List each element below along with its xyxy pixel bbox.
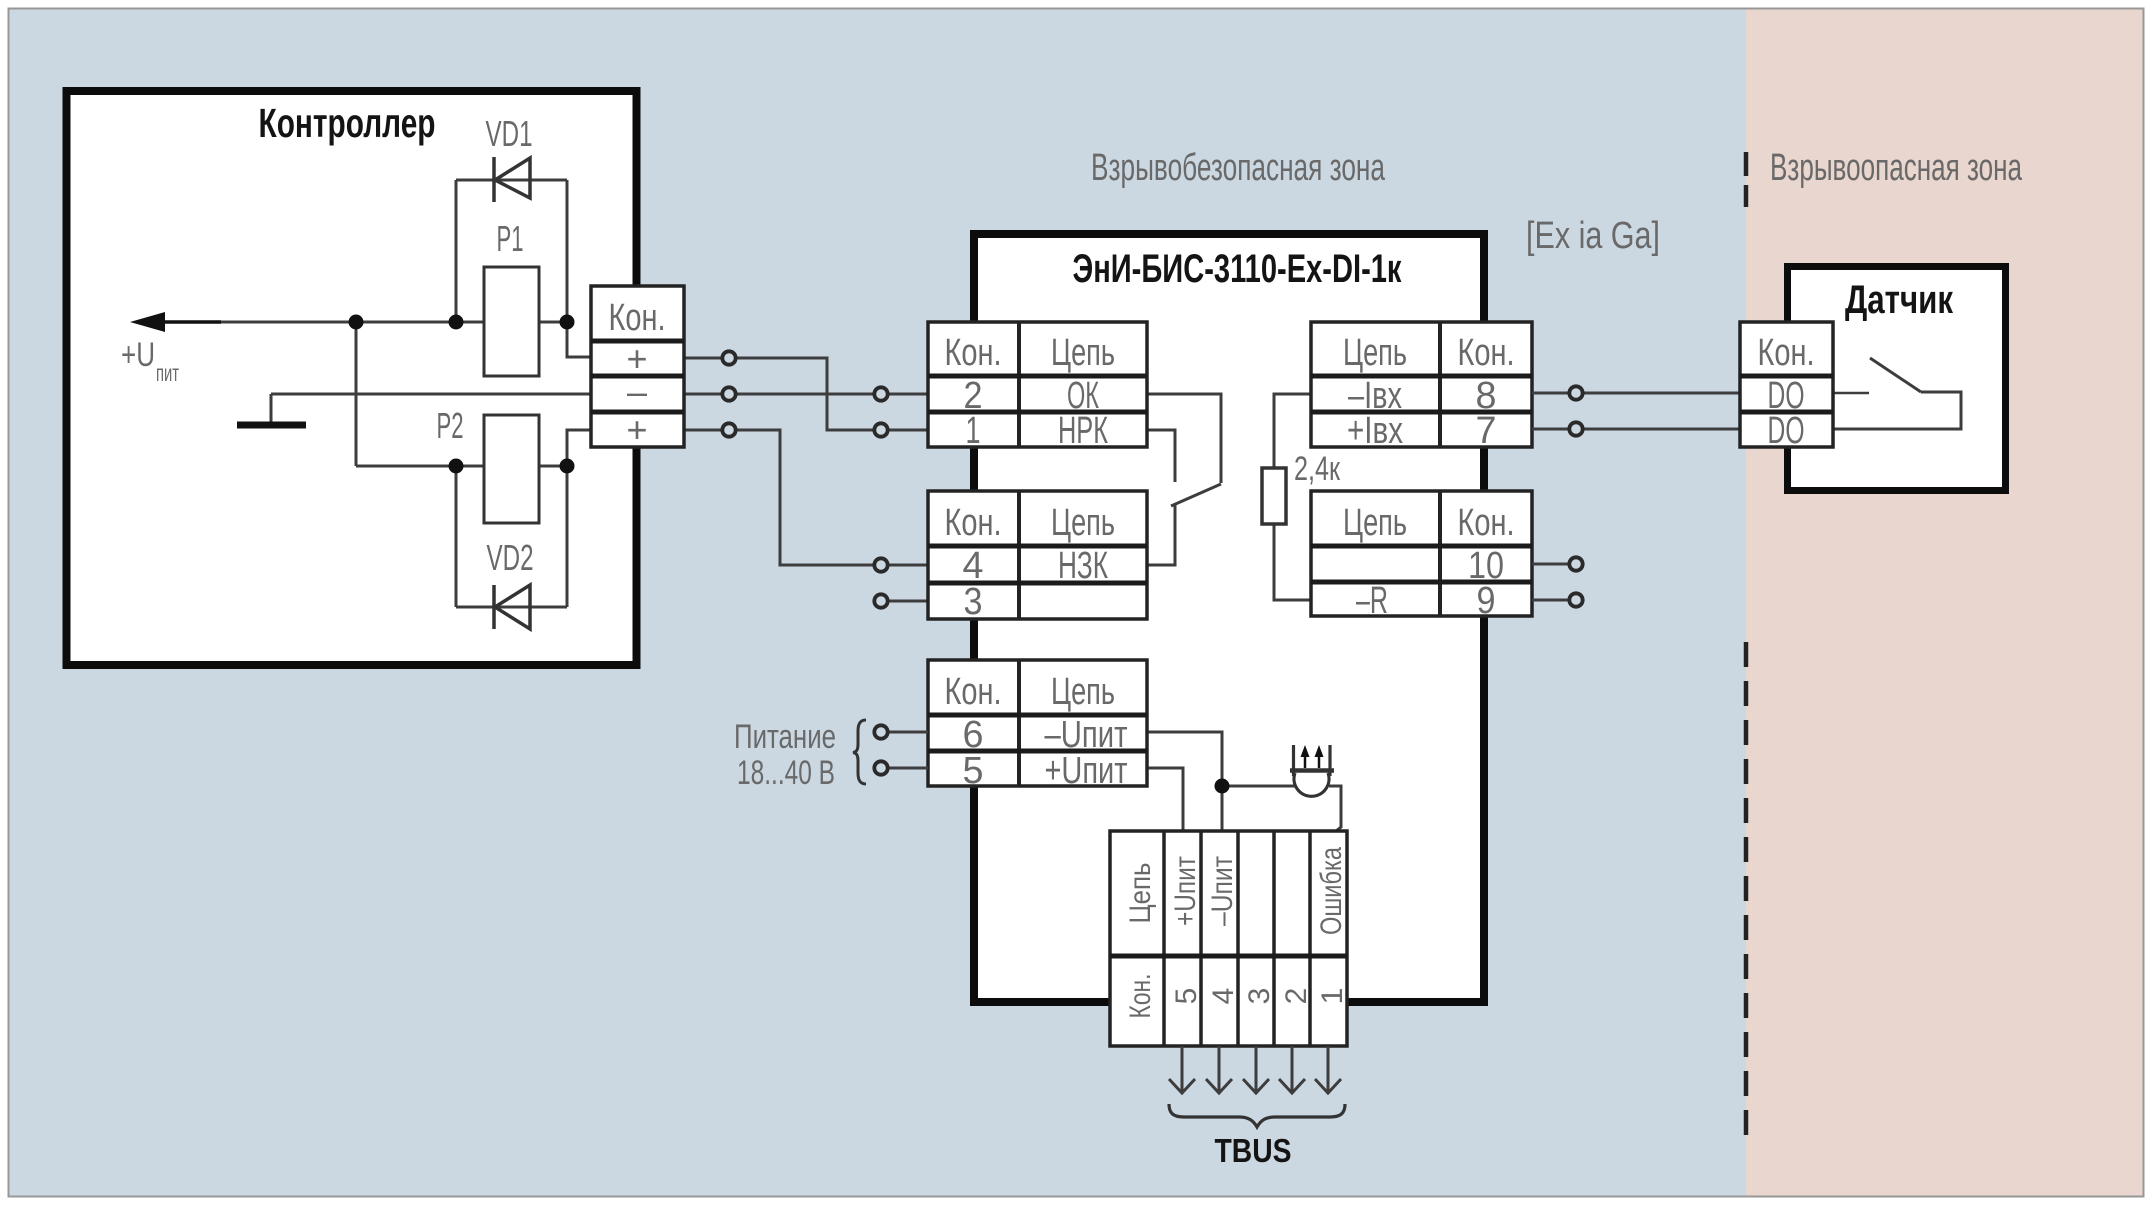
svg-text:1: 1 bbox=[1316, 988, 1349, 1005]
svg-text:–: – bbox=[627, 371, 647, 412]
svg-text:Кон.: Кон. bbox=[1458, 332, 1515, 374]
svg-text:5: 5 bbox=[1170, 988, 1203, 1005]
svg-text:+Iвх: +Iвх bbox=[1347, 410, 1403, 452]
svg-text:[Ex ia Ga]: [Ex ia Ga] bbox=[1526, 215, 1660, 257]
svg-text:7: 7 bbox=[1476, 410, 1497, 452]
svg-text:Цепь: Цепь bbox=[1051, 502, 1115, 544]
svg-text:+Uпит: +Uпит bbox=[1169, 856, 1202, 926]
svg-text:4: 4 bbox=[1207, 988, 1240, 1005]
svg-text:5: 5 bbox=[963, 750, 984, 792]
svg-text:пит: пит bbox=[156, 360, 179, 386]
svg-text:VD2: VD2 bbox=[487, 537, 534, 578]
svg-text:9: 9 bbox=[1477, 580, 1496, 622]
svg-text:Контроллер: Контроллер bbox=[259, 100, 436, 146]
svg-text:–R: –R bbox=[1356, 580, 1388, 622]
svg-text:3: 3 bbox=[964, 581, 983, 623]
svg-text:2,4к: 2,4к bbox=[1294, 450, 1341, 488]
svg-text:–Uпит: –Uпит bbox=[1206, 856, 1239, 926]
svg-text:DO: DO bbox=[1768, 410, 1805, 452]
svg-text:P2: P2 bbox=[437, 405, 464, 446]
svg-text:Цепь: Цепь bbox=[1343, 502, 1407, 544]
svg-text:Кон.: Кон. bbox=[945, 502, 1002, 544]
svg-text:Датчик: Датчик bbox=[1845, 278, 1954, 322]
svg-text:Цепь: Цепь bbox=[1343, 332, 1407, 374]
svg-text:Питание: Питание bbox=[734, 718, 836, 756]
svg-text:2: 2 bbox=[1280, 988, 1313, 1005]
svg-text:Кон.: Кон. bbox=[1758, 332, 1815, 374]
svg-text:+U: +U bbox=[121, 336, 155, 374]
svg-text:Кон.: Кон. bbox=[1124, 974, 1157, 1019]
svg-text:3: 3 bbox=[1243, 988, 1276, 1005]
svg-text:Кон.: Кон. bbox=[945, 332, 1002, 374]
svg-text:TBUS: TBUS bbox=[1215, 1132, 1292, 1169]
svg-text:+Uпит: +Uпит bbox=[1045, 750, 1128, 792]
svg-text:НРК: НРК bbox=[1058, 410, 1108, 452]
svg-text:Цепь: Цепь bbox=[1051, 332, 1115, 374]
svg-text:P1: P1 bbox=[497, 218, 524, 259]
svg-text:НЗК: НЗК bbox=[1058, 545, 1108, 587]
svg-text:Кон.: Кон. bbox=[609, 297, 666, 339]
svg-text:Кон.: Кон. bbox=[1458, 502, 1515, 544]
svg-text:Взрывоопасная зона: Взрывоопасная зона bbox=[1770, 147, 2023, 189]
svg-text:Ошибка: Ошибка bbox=[1315, 847, 1348, 935]
svg-text:Цепь: Цепь bbox=[1051, 671, 1115, 713]
svg-text:18...40 В: 18...40 В bbox=[737, 754, 835, 792]
svg-text:ЭнИ-БИС-3110-Ex-DI-1к: ЭнИ-БИС-3110-Ex-DI-1к bbox=[1073, 247, 1403, 291]
svg-text:1: 1 bbox=[966, 410, 981, 452]
svg-text:Кон.: Кон. bbox=[945, 671, 1002, 713]
svg-text:Цепь: Цепь bbox=[1124, 863, 1157, 924]
svg-text:Взрывобезопасная зона: Взрывобезопасная зона bbox=[1091, 147, 1386, 189]
svg-text:+: + bbox=[626, 409, 647, 450]
svg-text:VD1: VD1 bbox=[486, 113, 533, 154]
